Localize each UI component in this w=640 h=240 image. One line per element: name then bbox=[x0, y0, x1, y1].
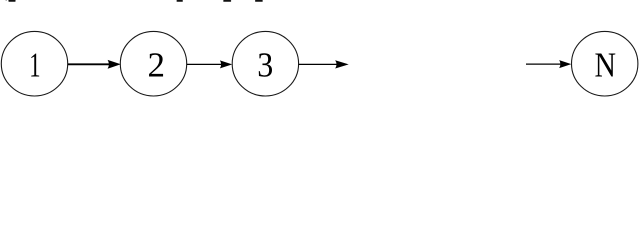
cropped text descender mark 1 bbox=[8, 0, 15, 2]
cropped text descender mark 3 bbox=[223, 0, 231, 2]
svg-text:2: 2 bbox=[147, 46, 165, 85]
node circle 2 bbox=[120, 31, 186, 96]
node circle 3 bbox=[232, 31, 298, 96]
cropped text descender mark faint dot bbox=[6, 0, 7, 2]
node circle N bbox=[572, 31, 638, 96]
svg-text:1: 1 bbox=[29, 46, 40, 85]
cropped text descender mark 4 bbox=[255, 0, 263, 2]
wire arrow into N bbox=[526, 63, 561, 65]
node circle 1 bbox=[1, 31, 67, 96]
cropped text descender mark 2 bbox=[177, 0, 183, 2]
svg-text:N: N bbox=[594, 46, 616, 85]
wire arrow after 3 bbox=[299, 63, 337, 65]
svg-text:3: 3 bbox=[257, 46, 273, 85]
wire arrow 1 to 2 (thick) bbox=[68, 63, 110, 65]
wire arrow 2 to 3 bbox=[187, 63, 222, 65]
